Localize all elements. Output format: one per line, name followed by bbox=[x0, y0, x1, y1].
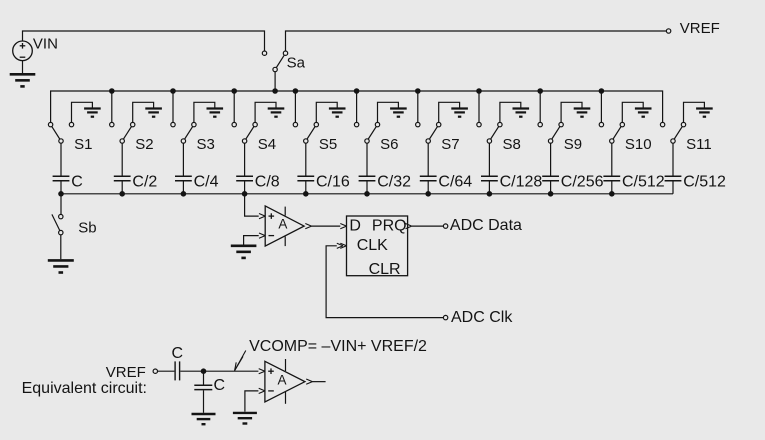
svg-text:CLR: CLR bbox=[369, 261, 401, 278]
flip-flop U2 bbox=[347, 216, 408, 276]
wire bus drop S6 bbox=[356, 91, 358, 122]
label S3 bbox=[197, 136, 215, 153]
wire bus drop S4 bbox=[233, 91, 235, 122]
svg-text:C/8: C/8 bbox=[255, 173, 280, 190]
svg-text:C/128: C/128 bbox=[500, 173, 543, 190]
switch S1 bbox=[48, 122, 73, 143]
svg-text:S1: S1 bbox=[74, 136, 92, 153]
junction bus-S10 bbox=[599, 88, 605, 94]
svg-text:C/64: C/64 bbox=[438, 173, 472, 190]
value label C/256 bbox=[561, 173, 604, 190]
label ADC Data bbox=[450, 217, 522, 234]
junction cap8-bottom bus bbox=[487, 191, 493, 197]
capacitor C/2 (bit 2) bbox=[114, 143, 131, 194]
pin D (with input arrow) bbox=[340, 218, 361, 235]
capacitor C (series) bbox=[175, 361, 180, 380]
switch S7 bbox=[416, 122, 441, 143]
ground (U3 - input) bbox=[233, 413, 257, 424]
label S4 bbox=[258, 136, 276, 153]
junction cap10-bottom bus bbox=[609, 191, 615, 197]
junction cap3-bottom bus bbox=[181, 191, 187, 197]
label VREF bbox=[680, 20, 720, 37]
ground (shunt C) bbox=[192, 414, 216, 424]
junction series C / shunt C bbox=[201, 368, 207, 374]
label S11 bbox=[686, 136, 712, 153]
svg-text:D: D bbox=[349, 218, 361, 235]
wire S10 ground hook bbox=[622, 102, 643, 122]
switch S6 bbox=[354, 122, 379, 143]
switch S2 bbox=[110, 122, 135, 143]
switch S8 bbox=[477, 122, 502, 143]
svg-text:S8: S8 bbox=[503, 136, 521, 153]
wire S4 ground hook bbox=[255, 102, 276, 122]
capacitor C (bit 1) bbox=[53, 143, 70, 194]
label A (U3) bbox=[278, 372, 287, 387]
svg-text:C/2: C/2 bbox=[132, 173, 157, 190]
value label C (series) bbox=[172, 345, 184, 362]
label S9 bbox=[564, 136, 582, 153]
wire Q output to ADC Data bbox=[406, 224, 444, 229]
ground (S1 throw) bbox=[84, 109, 101, 117]
wire U1 output to D input bbox=[305, 224, 340, 229]
label Sb bbox=[78, 219, 96, 236]
junction bus-S6 bbox=[354, 88, 360, 94]
junction bus-S9 bbox=[537, 88, 543, 94]
svg-text:C/512: C/512 bbox=[622, 173, 665, 190]
ground (S8 throw) bbox=[513, 109, 530, 117]
wire S11 ground hook bbox=[684, 102, 705, 122]
wire bottom bus to Sb bbox=[60, 194, 62, 215]
capacitor C/512 (bit 11) bbox=[665, 143, 682, 194]
wire bus drop S7 bbox=[417, 91, 419, 122]
wire S2 ground hook bbox=[133, 102, 154, 122]
svg-text:C/4: C/4 bbox=[194, 173, 219, 190]
switch Sa bbox=[262, 51, 287, 72]
value label C/128 bbox=[500, 173, 543, 190]
value label C/4 bbox=[194, 173, 219, 190]
ground (S9 throw) bbox=[574, 109, 591, 117]
wire ADC Clk to CLK pin bbox=[326, 246, 443, 318]
junction cap6-bottom bus bbox=[364, 191, 370, 197]
switch S11 bbox=[660, 122, 685, 143]
ground (S5 throw) bbox=[329, 109, 346, 117]
svg-text:C/16: C/16 bbox=[316, 173, 350, 190]
svg-text:ADC Clk: ADC Clk bbox=[451, 309, 513, 326]
junction bus-S2 bbox=[109, 88, 115, 94]
wire bus drop S10 bbox=[600, 91, 602, 122]
junction bus-S3 bbox=[170, 88, 176, 94]
svg-text:S6: S6 bbox=[380, 136, 398, 153]
svg-text:C: C bbox=[172, 345, 184, 362]
svg-text:ADC Data: ADC Data bbox=[450, 217, 522, 234]
wire S1 ground hook bbox=[72, 102, 93, 122]
value label C (shunt) bbox=[214, 377, 226, 394]
ground (S7 throw) bbox=[451, 109, 468, 117]
terminal VREF (equivalent) bbox=[153, 369, 157, 373]
wire bottom bus (common top plates) bbox=[61, 193, 673, 195]
ground (S11 throw) bbox=[696, 109, 713, 117]
capacitor C/128 (bit 8) bbox=[481, 143, 498, 194]
capacitor C/256 (bit 9) bbox=[542, 143, 559, 194]
label S1 bbox=[74, 136, 92, 153]
label VCOMP= -VIN+ VREF/2 bbox=[249, 338, 427, 355]
svg-text:Equivalent circuit:: Equivalent circuit: bbox=[22, 380, 147, 397]
junction cap4-bottom bus bbox=[242, 191, 248, 197]
svg-text:Sb: Sb bbox=[78, 219, 96, 236]
value label C/8 bbox=[255, 173, 280, 190]
annotation arrow to VCOMP node bbox=[235, 351, 246, 371]
terminal VREF bbox=[666, 29, 670, 33]
op-amp U3 (comparator A, equivalent) bbox=[259, 359, 305, 404]
svg-text:PRQ: PRQ bbox=[372, 218, 407, 235]
svg-text:C/256: C/256 bbox=[561, 173, 604, 190]
ground (S3 throw) bbox=[207, 109, 224, 117]
label Sa bbox=[287, 55, 306, 72]
wire S7 ground hook bbox=[439, 102, 460, 122]
wire VIN to Sa throw bbox=[23, 31, 265, 51]
pin label PRQ bbox=[372, 218, 407, 235]
ground (U1 - input) bbox=[231, 246, 257, 258]
label VIN bbox=[33, 36, 58, 53]
terminal ADC Data bbox=[443, 224, 447, 228]
wire S8 ground hook bbox=[500, 102, 521, 122]
value label C/64 bbox=[438, 173, 472, 190]
svg-text:S7: S7 bbox=[441, 136, 459, 153]
svg-text:C: C bbox=[214, 377, 226, 394]
pin CLK (edge arrows) bbox=[337, 237, 388, 254]
capacitor C/32 (bit 6) bbox=[359, 143, 376, 194]
wire bus drop S8 bbox=[478, 91, 480, 122]
wire U1 - input to ground bbox=[244, 236, 259, 245]
label S8 bbox=[503, 136, 521, 153]
label S6 bbox=[380, 136, 398, 153]
junction bus-S4 bbox=[231, 88, 237, 94]
wire top bus bbox=[51, 91, 663, 122]
switch Sb bbox=[52, 214, 63, 234]
terminal ADC Clk bbox=[443, 315, 447, 319]
wire VREF net bbox=[286, 31, 667, 51]
svg-text:Sa: Sa bbox=[287, 55, 306, 72]
ground (S6 throw) bbox=[390, 109, 407, 117]
capacitor C/512 (bit 10) bbox=[603, 143, 620, 194]
svg-text:VCOMP= –VIN+ VREF/2: VCOMP= –VIN+ VREF/2 bbox=[249, 338, 427, 355]
value label C/16 bbox=[316, 173, 350, 190]
wire bus drop S9 bbox=[539, 91, 541, 122]
svg-text:S3: S3 bbox=[197, 136, 215, 153]
wire U3 - input to ground bbox=[245, 391, 259, 412]
capacitor C/64 (bit 7) bbox=[420, 143, 437, 194]
svg-text:C: C bbox=[71, 173, 83, 190]
wire S9 ground hook bbox=[561, 102, 582, 122]
switch S5 bbox=[293, 122, 318, 143]
wire VREF terminal to series C bbox=[158, 370, 175, 372]
wire Sa to top bus bbox=[274, 72, 276, 91]
value label C/2 bbox=[132, 173, 157, 190]
junction cap1-bottom bus bbox=[58, 191, 64, 197]
capacitor C/8 (bit 4) bbox=[236, 143, 253, 194]
svg-text:A: A bbox=[278, 372, 287, 387]
label Equivalent circuit: bbox=[22, 380, 147, 397]
junction cap5-bottom bus bbox=[303, 191, 309, 197]
junction cap7-bottom bus bbox=[425, 191, 431, 197]
switch S9 bbox=[538, 122, 563, 143]
svg-text:S5: S5 bbox=[319, 136, 337, 153]
svg-text:S9: S9 bbox=[564, 136, 582, 153]
capacitor C/16 (bit 5) bbox=[297, 143, 314, 194]
svg-text:A: A bbox=[278, 217, 287, 232]
wire bus drop S3 bbox=[172, 91, 174, 122]
svg-text:C/32: C/32 bbox=[377, 173, 411, 190]
value label C bbox=[71, 173, 83, 190]
svg-text:VIN: VIN bbox=[33, 36, 58, 53]
value label C/512 bbox=[683, 173, 726, 190]
wire Sb to ground bbox=[60, 235, 62, 259]
junction cap9-bottom bus bbox=[548, 191, 554, 197]
wire S3 ground hook bbox=[194, 102, 215, 122]
voltage source VIN bbox=[13, 41, 33, 61]
label VREF (equivalent) bbox=[106, 364, 146, 381]
ground (Sb) bbox=[48, 260, 74, 272]
junction bus-S7 bbox=[415, 88, 421, 94]
value label C/32 bbox=[377, 173, 411, 190]
op-amp U1 (comparator A) bbox=[259, 206, 304, 246]
svg-text:S2: S2 bbox=[135, 136, 153, 153]
junction bus-S5 bbox=[293, 88, 299, 94]
junction cap2-bottom bus bbox=[119, 191, 125, 197]
ground (S10 throw) bbox=[635, 109, 652, 117]
label S7 bbox=[441, 136, 459, 153]
capacitor C (shunt) bbox=[194, 371, 212, 413]
wire bus drop S2 bbox=[111, 91, 113, 122]
wire S6 ground hook bbox=[378, 102, 399, 122]
switch S4 bbox=[232, 122, 257, 143]
switch S3 bbox=[171, 122, 196, 143]
wire U3 output (VCOMP) bbox=[306, 379, 325, 384]
ground (S2 throw) bbox=[145, 109, 162, 117]
label S5 bbox=[319, 136, 337, 153]
svg-text:S10: S10 bbox=[625, 136, 652, 153]
svg-text:VREF: VREF bbox=[106, 364, 146, 381]
svg-text:S4: S4 bbox=[258, 136, 276, 153]
wire bus drop S5 bbox=[294, 91, 296, 122]
wire bus tap to U1 + input bbox=[245, 194, 259, 216]
svg-text:C/512: C/512 bbox=[683, 173, 726, 190]
junction Sa-bus bbox=[272, 88, 278, 94]
label A (U1) bbox=[278, 217, 287, 232]
ground (S4 throw) bbox=[268, 109, 285, 117]
svg-text:CLK: CLK bbox=[357, 237, 388, 254]
value label C/512 bbox=[622, 173, 665, 190]
pin label CLR bbox=[369, 261, 401, 278]
ground (VIN source) bbox=[10, 61, 36, 87]
label ADC Clk bbox=[451, 309, 513, 326]
wire S5 ground hook bbox=[316, 102, 337, 122]
junction bus-S8 bbox=[476, 88, 482, 94]
capacitor C/4 (bit 3) bbox=[175, 143, 192, 194]
wire series C to U3 + input bbox=[180, 370, 258, 372]
label S10 bbox=[625, 136, 652, 153]
label S2 bbox=[135, 136, 153, 153]
svg-text:VREF: VREF bbox=[680, 20, 720, 37]
svg-text:S11: S11 bbox=[686, 136, 712, 153]
switch S10 bbox=[599, 122, 624, 143]
